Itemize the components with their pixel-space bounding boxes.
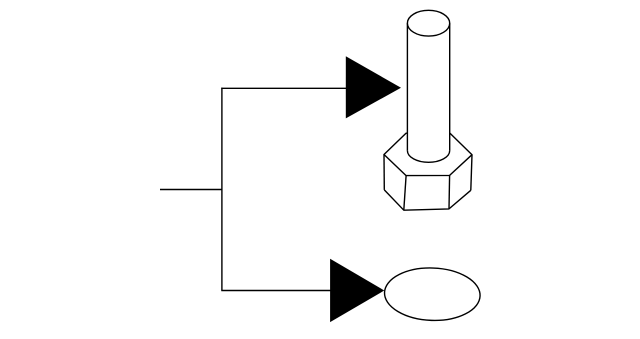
wire: left stub lead [160, 189, 222, 191]
bolt: hex head [384, 133, 472, 210]
bolt: shank (cylinder) [407, 23, 449, 162]
washer (ellipse) [384, 266, 481, 322]
arrowhead to washer [330, 259, 384, 322]
wire: bottom branch to washer [221, 290, 331, 292]
wire: top branch to bolt [221, 87, 346, 89]
wire: vertical spine [221, 88, 223, 291]
bolt: shank top ellipse [407, 10, 449, 36]
arrowhead to bolt [346, 56, 401, 118]
